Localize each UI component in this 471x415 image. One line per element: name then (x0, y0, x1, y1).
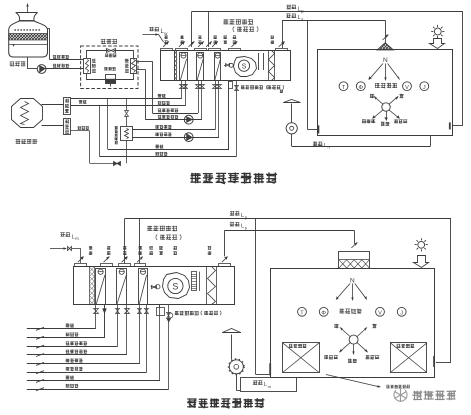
bottom label 冷冻水回水 (66, 341, 88, 345)
evaporator chw return riser (137, 61, 153, 63)
bottom humidifier nozzle (152, 286, 157, 289)
label 冷冻水供水 (158, 115, 179, 119)
bottom riser x168.7 (168, 305, 170, 389)
title 空气调节原理图 (190, 172, 277, 183)
svg-text:S: S (172, 282, 178, 292)
humidifier feed box (229, 82, 233, 89)
label 凝结水 (158, 101, 170, 105)
watermark snowflake logo (394, 388, 406, 402)
svg-text:h: h (328, 144, 330, 149)
label 空调房间 (339, 309, 362, 314)
exhaust line 排风 Lp top (191, 11, 463, 13)
coil 3 reheat (215, 53, 221, 81)
svg-text:J: J (423, 85, 426, 91)
label 热水回水 (155, 125, 172, 129)
coil 2 cooling (197, 53, 204, 81)
bottom riser x159.8 (159, 305, 161, 381)
bottom humidifier feed box (157, 308, 165, 316)
bottom AHU label 空气处理机(空调器) (147, 226, 177, 232)
branch to room low inlet (307, 20, 309, 129)
wire boiler to water header (42, 125, 64, 127)
return air line 回风 Lh (291, 134, 293, 146)
bottom line 冷冻水供水 y355.0 (27, 354, 127, 356)
sun symbol (434, 28, 441, 35)
svg-text:Φ: Φ (358, 85, 363, 91)
room box 空调房间 (top) (318, 50, 453, 136)
hub arrows bottom (340, 328, 351, 338)
svg-text:s: s (245, 225, 247, 230)
service line 凝结水 y105.8 (70, 105, 185, 107)
bottom riser x117.3 (117, 305, 119, 347)
room exhaust opening right (449, 122, 451, 129)
bottom AHU box (74, 267, 235, 305)
clean room box 空调房间 (bottom) (271, 269, 435, 378)
cooling water pump P1 (37, 65, 46, 74)
heat exchanger 汽水换热器 (121, 127, 133, 141)
refrigerant loop wire (87, 51, 109, 59)
bottom supply fan (163, 273, 190, 299)
bottom return risers to AHU (124, 219, 126, 264)
evaporator 蒸发器 (131, 59, 137, 74)
bottom line 热水回水 y363.9 (27, 363, 140, 365)
cooling return pipe 冷却回水 (48, 28, 50, 30)
process equipment box right 工艺设备 (391, 343, 427, 373)
coarse filter strip (175, 51, 177, 81)
riser to AHU x185.6 (185, 81, 187, 106)
label 冷却回水 (53, 55, 69, 59)
service line 热水回水 y129.7 (132, 129, 215, 131)
svg-text:T: T (300, 310, 304, 316)
label 排风 Lp (286, 5, 296, 10)
supply fan scroll (234, 57, 257, 77)
exhaust branch right side (450, 219, 452, 362)
fresh air inlet 新风 Lw (149, 27, 159, 32)
AHU inlet valves under unit (180, 85, 185, 89)
bottom riser x126.9 (126, 305, 128, 355)
fan outlet vanes (258, 53, 260, 70)
riser to AHU x219.0 (218, 81, 220, 138)
wire boiler to steam header (42, 104, 64, 106)
bottom label 蒸汽 (66, 376, 75, 380)
bottom eliminator zigzag (207, 267, 217, 305)
bottom line 凝结水 y337.8 (27, 337, 105, 339)
service line 凝结水 y156.6 (99, 156, 236, 158)
svg-text:V: V (378, 310, 382, 316)
label 凝结水 (155, 152, 167, 156)
service line 热水供水 y137.1 (132, 137, 219, 139)
svg-text:V: V (405, 85, 409, 91)
exhaust fan (top room) (286, 123, 297, 134)
title 净化空调原理图 (187, 398, 264, 408)
condenser 冷凝器 (84, 59, 91, 74)
label 冷却供水 (53, 64, 69, 68)
eliminator zigzag (269, 51, 275, 81)
watermark 暖通南社 (412, 390, 456, 400)
bottom label 蒸汽 (66, 324, 75, 328)
svg-text:m: m (75, 236, 79, 241)
bottom fresh air 新风 Lm (60, 232, 70, 237)
supply riser from AHU outlet (224, 230, 226, 256)
label 热水供水 (155, 132, 172, 136)
bottom line 冷冻水回水 y346.7 (27, 346, 118, 348)
branch to ceiling diffuser (385, 20, 387, 42)
cooling tower spray nozzles (15, 29, 42, 31)
bottom coil 3 (139, 269, 148, 305)
label 蒸汽锅炉 (16, 139, 38, 144)
bottom label 凝结水 (66, 332, 79, 336)
AHU mixing section wall (174, 51, 176, 81)
bottom humidifier steam valve (167, 313, 171, 319)
HEPA filter box (339, 252, 370, 269)
throttle valve 节流阀 (107, 49, 116, 53)
steam drop to heat exchanger (126, 99, 128, 111)
fan to exhaust box wire (236, 374, 238, 391)
bottom riser x139.7 (139, 305, 141, 364)
svg-text:J: J (400, 310, 403, 316)
svg-text:N: N (383, 57, 388, 64)
load hub circle (382, 103, 390, 111)
state circles bottom T phi V J (298, 307, 307, 316)
boiler heating coil zigzag (21, 102, 29, 125)
cooling tower CT1 (16, 12, 38, 14)
label 冷却塔 (10, 61, 26, 66)
label 冷冻机 (101, 39, 117, 44)
label 工艺设备排风 tiny (386, 385, 410, 389)
process exhaust diagonal arrow (326, 375, 380, 388)
bottom label 凝结水 (66, 384, 79, 388)
service line 蒸汽 y98.5 (70, 98, 181, 100)
steam boiler 蒸汽锅炉 octagon (12, 99, 43, 128)
bottom AHU section labels (89, 246, 93, 250)
riser condensate2 (99, 106, 101, 157)
steam header 分汽缸 (64, 98, 71, 115)
label 节流阀 (105, 54, 117, 58)
service line 蒸汽 y149.3 (108, 149, 229, 151)
humidifier steam valve (235, 86, 239, 91)
label 凝结水 small (78, 126, 90, 130)
label 蒸发器 vertical (125, 59, 129, 73)
label 蒸汽 (158, 94, 166, 98)
bottom riser x104.6 (104, 305, 106, 338)
bottom coarse filter strip (90, 267, 95, 305)
condensate trap valve (114, 162, 121, 166)
exhaust fan bottom (gear) (229, 360, 243, 374)
bottom exhaust line 排风 Lp (125, 218, 452, 220)
bottom supply line 送风 Ls (225, 230, 355, 232)
bottom riser x146.6 (146, 305, 148, 372)
svg-text:T: T (342, 85, 346, 91)
bottom label 冷冻水供水 (66, 350, 88, 354)
supply drop to HEPA (354, 230, 356, 243)
label 回风 Lh (313, 142, 323, 147)
cooling supply pipe 冷却供水 (27, 57, 29, 69)
AHU label 空气处理机(空调器) (223, 19, 253, 25)
riser to AHU x236.4 (236, 81, 238, 157)
label 蒸汽 (155, 145, 163, 149)
AHU flanges and dampers (161, 49, 173, 51)
riser from 分汽缸 steam2 (107, 99, 109, 150)
label 蒸汽 small (79, 100, 87, 104)
label 压缩机 (104, 67, 115, 71)
solar gain hollow arrow (430, 39, 445, 49)
hub arrows and labels (374, 96, 383, 104)
bottom AHU valves under unit (94, 309, 99, 314)
bottom riser x95.8 (95, 305, 97, 329)
supply line 送风 Ls top (282, 20, 385, 22)
label 冷凝器 vertical (92, 59, 96, 73)
riser to AHU x201.9 (201, 81, 203, 120)
label 送风 Ls (286, 14, 296, 19)
exhaust stack arrow (291, 104, 293, 123)
process equipment box left 工艺设备 (283, 343, 320, 373)
bottom AHU sublabel 空气处理机(空调器) (169, 313, 173, 318)
bottom line 蒸汽 y380.9 (27, 380, 160, 382)
svg-text:S: S (242, 63, 247, 70)
svg-text:s: s (301, 17, 303, 22)
evaporator chw supply riser (137, 69, 146, 71)
solar hollow arrow bottom (414, 256, 429, 268)
cooling tower fill hatch (9, 34, 48, 41)
service line 冷冻水回水 y113.1 (153, 113, 199, 115)
humidifier nozzle (226, 64, 230, 67)
bottom label 热水回水 (66, 359, 83, 363)
condensate header 分水器 (64, 119, 71, 135)
coil 1 preheat (180, 53, 188, 81)
riser to AHU x215.2 (215, 81, 217, 130)
label 排风 Lp (bottom) (230, 211, 240, 216)
ceiling diffuser hatched (377, 43, 394, 50)
label 汽水换热器 vertical (115, 126, 118, 144)
bottom heater strip (192, 272, 197, 291)
riser to AHU x198.0 (198, 81, 200, 114)
bottom AHU flanges and dampers (75, 264, 87, 267)
wire AHU outlet up (282, 20, 284, 48)
return risers into AHU (191, 12, 193, 47)
svg-text:N: N (350, 277, 355, 284)
fan impeller circle S (238, 60, 249, 71)
exhaust stack bottom umbrella (223, 329, 241, 333)
bottom line 热水供水 y372.2 (27, 372, 147, 374)
arrows from N (369, 64, 383, 80)
bottom coil 1 (96, 269, 106, 305)
load hub circle bottom (349, 335, 358, 344)
compressor 压缩机 (106, 75, 116, 84)
cooling tower water level (9, 44, 48, 46)
bottom coil 2 (117, 269, 127, 305)
sun symbol bottom (418, 241, 425, 248)
bottom line 凝结水 y389.2 (27, 389, 169, 391)
cooling tower exhaust arrow (27, 4, 29, 13)
service line 冷冻水供水 y119.7 (145, 119, 202, 121)
label 冷冻水回水 (158, 108, 179, 112)
exhaust box 排风 Lm (241, 378, 297, 392)
hot water pump P3 (184, 133, 193, 142)
heat exchanger condensate return wire (126, 141, 128, 164)
bottom line 蒸汽 y328.8 (27, 328, 96, 330)
chiller dashed box 冷冻机 (81, 46, 138, 89)
label 空调条件 (375, 83, 397, 88)
bottom label 热水供水 (66, 367, 83, 371)
chilled water pump P2 (184, 115, 193, 124)
AHU section labels tiny (164, 35, 168, 39)
state circles T phi V J (339, 82, 348, 91)
riser to AHU x229.0 (228, 81, 230, 150)
exhaust branch to room left (255, 219, 257, 375)
condensate drain valve filled (103, 309, 107, 314)
label 送风 Ls (bottom) (230, 222, 240, 227)
riser to AHU x181.8 (181, 81, 183, 99)
svg-text:Φ: Φ (321, 311, 326, 317)
AHU box 空气处理机 (161, 51, 291, 81)
arrows from N (bottom) (336, 284, 350, 300)
